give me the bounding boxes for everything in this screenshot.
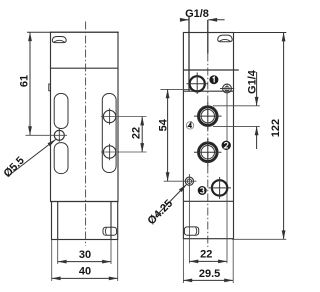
dimension 61 line (29, 32, 31, 135)
svg-text:G1/8: G1/8 (185, 8, 209, 20)
port P3 horizontal crosshair (209, 187, 232, 189)
pilot port extension vertical (226, 84, 228, 263)
left view cap joint line (51, 67, 119, 69)
right view centerline solid top (207, 20, 209, 54)
port P4 horizontal crosshair (194, 115, 222, 117)
port P4 vertical crosshair (207, 103, 209, 130)
left view slot B (54, 143, 68, 174)
manual override vertical crosshair (196, 73, 198, 95)
right view body outline (183, 33, 233, 239)
left circle upper (103, 110, 115, 122)
port mark 4 (186, 122, 193, 129)
left circle lower (103, 146, 115, 158)
left circle lower horizontal crosshair + 22 extension (101, 151, 147, 153)
port P2 inner circle (201, 146, 214, 159)
top extension line left segment (27, 31, 119, 33)
right view top slot inner arc (219, 39, 231, 41)
left view bottom D-slot (103, 227, 117, 235)
port mark 2 (222, 141, 231, 150)
right view pilot joint line (183, 90, 233, 92)
svg-text:122: 122 (270, 119, 282, 137)
dimension 29.5 extension left (182, 239, 184, 283)
svg-text:29.5: 29.5 (199, 268, 220, 280)
left view bottom D-slot inner arc (105, 228, 106, 235)
dimension 29.5 line (184, 279, 233, 281)
svg-text:22: 22 (200, 249, 212, 261)
leader D5.5 (8, 140, 56, 177)
left circle lower vertical crosshair (109, 144, 111, 160)
dimension 29.5 extension right (232, 239, 234, 283)
left view top slot inner arc (54, 40, 65, 42)
dimension 40 extension right (117, 240, 119, 282)
svg-text:30: 30 (79, 249, 91, 261)
port P4 thread ring (199, 107, 217, 125)
port P4 bottom tangent extension (213, 125, 260, 127)
left view slot right column (102, 94, 116, 173)
dimension 54 extension top (160, 88, 191, 90)
port mark 3 (198, 186, 207, 195)
left view base inner line left (57, 202, 59, 240)
hole D4.25 inner (187, 179, 191, 183)
dimension G1/8 left segment (181, 19, 189, 21)
left circle upper vertical crosshair (109, 108, 111, 124)
top extension line right segment (183, 32, 286, 34)
port mark 1 (209, 75, 218, 84)
manual override horizontal crosshair (187, 83, 209, 85)
dimension 40 line (52, 277, 118, 279)
left view centerline (85, 22, 87, 247)
pilot exhaust inner circle (225, 86, 229, 90)
dimension 30 extension right (110, 240, 112, 265)
port P4 inner circle (201, 109, 214, 122)
svg-text:40: 40 (79, 266, 91, 278)
dimension 54 line (167, 90, 169, 181)
hole D4.25 (185, 177, 193, 185)
pilot exhaust horizontal crosshair (220, 88, 234, 90)
left view side tab (49, 84, 51, 91)
dimension 40 extension left (51, 240, 53, 282)
right view bottom D-slot (184, 227, 198, 235)
dimension 54 extension bottom / hole crosshair (164, 180, 197, 182)
svg-text:Ø5.5: Ø5.5 (2, 155, 27, 180)
hole D5.5 vertical crosshair (58, 128, 60, 142)
left view body outline (51, 32, 119, 201)
left view base inner line right (110, 202, 112, 240)
port P4 outer circle (198, 106, 219, 127)
pilot exhaust circle (223, 84, 232, 93)
port P2 horizontal crosshair (194, 151, 222, 153)
port P2 thread ring (199, 143, 217, 161)
svg-text:22: 22 (130, 127, 142, 139)
dimension 30 extension left (57, 240, 59, 265)
port P2 vertical crosshair (207, 139, 209, 167)
dimension 122 bottom extension (232, 238, 286, 240)
left view slot A (54, 94, 68, 129)
dimension G1/4 lower segment (256, 127, 258, 149)
dimension 30 line (58, 261, 111, 263)
hole D5.5 (54, 130, 64, 140)
port P4 top tangent extension (213, 105, 260, 107)
port P3 vertical crosshair (219, 177, 221, 199)
dimension 22 right extension left (188, 258, 190, 263)
left view top slot (52, 37, 66, 43)
leader D4.25 (156, 185, 187, 217)
port P3 circle (212, 180, 227, 195)
svg-text:G1/4: G1/4 (246, 69, 258, 94)
right view inner left line (188, 17, 190, 92)
dimension G1/8 right segment (208, 19, 224, 21)
right view centerline (207, 54, 209, 248)
dimension G1/4 upper segment (256, 72, 258, 106)
manual override circle (190, 76, 205, 91)
svg-text:54: 54 (158, 118, 170, 131)
svg-text:Ø4.25: Ø4.25 (146, 198, 176, 228)
left view base outline (52, 202, 118, 240)
port P2 outer circle (198, 142, 219, 163)
left circle upper horizontal crosshair + 22 extension (101, 116, 147, 118)
right view top slot (218, 35, 233, 42)
svg-text:61: 61 (18, 75, 30, 87)
dimension 22 left view line (141, 117, 143, 152)
right view cap joint line (183, 69, 238, 71)
dimension 122 line (283, 33, 285, 239)
hole D4.25 vertical crosshair/extension (188, 174, 190, 263)
right view base joint line (183, 200, 233, 202)
dimension 22 right line (190, 260, 227, 262)
right view bottom D-slot inner arc (196, 227, 197, 234)
dimension 61 bottom extension / hole crosshair (26, 134, 68, 136)
